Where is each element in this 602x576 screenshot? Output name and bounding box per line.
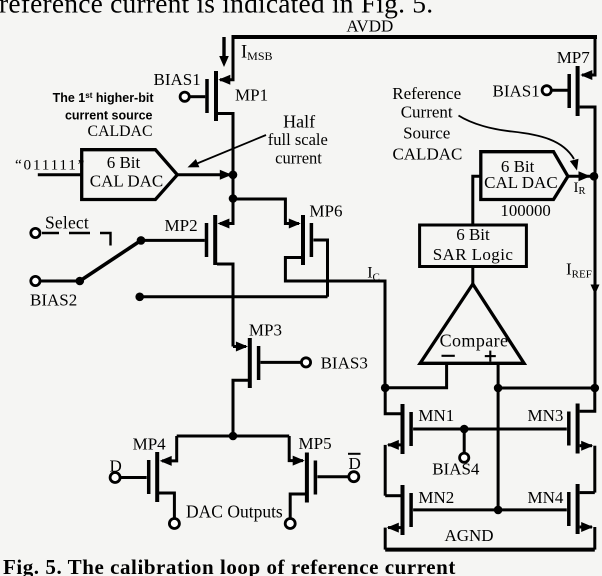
svg-text:Current: Current xyxy=(401,103,453,122)
svg-text:Fig. 5. The calibration loop o: Fig. 5. The calibration loop of referenc… xyxy=(3,555,456,576)
svg-text:The 1st higher-bit: The 1st higher-bit xyxy=(53,91,155,105)
svg-text:DAC Outputs: DAC Outputs xyxy=(186,502,283,522)
svg-text:MP4: MP4 xyxy=(133,435,167,454)
svg-text:BIAS1: BIAS1 xyxy=(154,70,201,89)
svg-text:CALDAC: CALDAC xyxy=(392,145,462,164)
svg-text:Half: Half xyxy=(283,112,315,132)
svg-text:Compare: Compare xyxy=(440,331,509,351)
svg-text:MP7: MP7 xyxy=(557,48,591,67)
svg-text:“011111”: “011111” xyxy=(15,157,86,174)
svg-text:BIAS1: BIAS1 xyxy=(493,82,540,101)
svg-text:CAL DAC: CAL DAC xyxy=(90,171,164,190)
svg-text:SAR Logic: SAR Logic xyxy=(433,245,514,264)
svg-text:MN2: MN2 xyxy=(418,488,454,507)
svg-text:MP6: MP6 xyxy=(309,202,342,221)
svg-text:6 Bit: 6 Bit xyxy=(456,225,490,244)
svg-text:MP2: MP2 xyxy=(165,216,198,235)
svg-text:MP5: MP5 xyxy=(299,434,332,453)
svg-text:Select: Select xyxy=(45,213,89,233)
svg-text:BIAS4: BIAS4 xyxy=(432,460,480,479)
svg-text:Reference: Reference xyxy=(392,84,461,103)
svg-text:full scale: full scale xyxy=(268,130,328,149)
svg-text:AVDD: AVDD xyxy=(346,17,393,36)
svg-text:MN4: MN4 xyxy=(528,488,564,507)
svg-text:MP3: MP3 xyxy=(249,321,282,340)
svg-text:BIAS3: BIAS3 xyxy=(321,354,368,373)
svg-text:6 Bit: 6 Bit xyxy=(107,153,141,172)
svg-text:current: current xyxy=(275,149,322,168)
svg-text:AGND: AGND xyxy=(444,526,493,545)
svg-text:MN3: MN3 xyxy=(528,406,564,425)
svg-text:100000: 100000 xyxy=(500,201,550,220)
svg-text:CALDAC: CALDAC xyxy=(88,123,153,140)
svg-text:reference current is indicated: reference current is indicated in Fig. 5… xyxy=(0,0,433,19)
svg-text:MN1: MN1 xyxy=(418,406,454,425)
svg-text:D: D xyxy=(349,454,361,473)
svg-text:MP1: MP1 xyxy=(235,85,268,104)
svg-text:Source: Source xyxy=(403,124,450,143)
svg-text:current source: current source xyxy=(65,109,153,123)
svg-text:BIAS2: BIAS2 xyxy=(30,290,77,309)
svg-text:CAL DAC: CAL DAC xyxy=(484,173,558,192)
svg-text:D: D xyxy=(110,457,122,476)
